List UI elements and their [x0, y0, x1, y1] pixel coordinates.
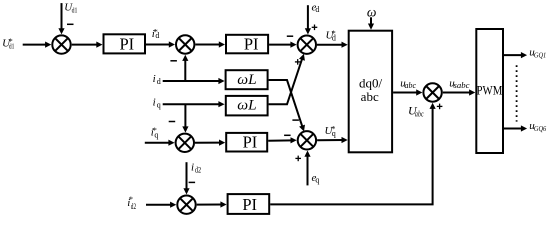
svg-text:PI: PI: [119, 35, 134, 54]
summing junction S5: [298, 131, 316, 149]
node usabc label: [449, 77, 470, 90]
svg-text:abc: abc: [405, 81, 417, 90]
wire S4 to PI controller PI3: [195, 140, 225, 146]
wire wL1 output cross-coupling to summer S5: [269, 80, 305, 132]
summing junction S4: [176, 134, 194, 152]
svg-text:q: q: [315, 176, 319, 185]
summing junction S3: [298, 36, 316, 54]
svg-text:d2: d2: [131, 202, 136, 211]
node i*d label: [152, 26, 160, 40]
svg-text:PI: PI: [244, 35, 259, 54]
node eq grid voltage label: [312, 172, 320, 185]
wire dq0/abc to summer S6 uabc: [393, 89, 422, 95]
sign plus at S3 top input: [312, 25, 318, 31]
svg-text:abc: abc: [361, 89, 379, 104]
wire PWM gate output uGQ1: [504, 52, 527, 58]
svg-text:d: d: [157, 77, 161, 86]
wire wL2 output cross-coupling to summer S3: [269, 54, 305, 105]
svg-text:PWM: PWM: [477, 84, 503, 98]
svg-text:i: i: [153, 96, 156, 108]
block PWM modulator: [476, 29, 503, 153]
svg-text:q: q: [154, 131, 158, 140]
node Ud1 feedback label: [64, 2, 77, 15]
wire i*q to summer S4: [145, 140, 175, 146]
wire PI2 to summer S3: [269, 42, 297, 48]
sign minus at S2 bottom input: [170, 60, 177, 62]
node id2 feedback label: [191, 162, 201, 175]
wire S7 to PI controller PI4: [197, 201, 227, 207]
summing junction S1: [52, 35, 70, 53]
dotted continuation line between gate outputs: [516, 65, 518, 121]
block wL1 omega-L gain: [226, 70, 268, 89]
node U*q output label: [325, 124, 336, 139]
sign minus at S5 diagonal input: [292, 119, 299, 121]
wire Ud1 drop into S1: [58, 3, 64, 34]
svg-text:d: d: [332, 33, 336, 42]
node i*q reference label: [151, 125, 159, 140]
wire id branch up into S2: [182, 55, 188, 81]
node i*d2 reference label: [127, 194, 136, 211]
sign plus at S3 bottom diagonal input: [295, 59, 301, 65]
svg-text:i: i: [153, 73, 156, 85]
svg-text:abc: abc: [415, 108, 424, 118]
wire iq branch down into S4: [182, 104, 188, 132]
block PI4 id2-loop PI: [228, 194, 270, 214]
svg-text:d2: d2: [195, 166, 201, 175]
svg-text:d1: d1: [9, 42, 15, 51]
svg-text:PI: PI: [242, 195, 257, 214]
node uabc label: [400, 77, 416, 90]
svg-text:GQ1: GQ1: [534, 51, 546, 60]
wire PI1 to summer S2: [146, 41, 175, 47]
wire PWM gate output uGQ6: [504, 125, 527, 131]
wire eq up into S5: [304, 151, 310, 186]
svg-text:PI: PI: [243, 133, 258, 152]
sign minus at S3 left input: [287, 35, 293, 37]
wire U*d1 to summer S1: [23, 42, 52, 48]
summing junction S7: [177, 196, 195, 214]
wire S1 to PI controller PI1: [72, 42, 103, 48]
wire S5 to dq0/abc block U*q input: [317, 137, 348, 143]
sign minus at S4 top input: [169, 121, 176, 123]
sign minus at S1 top input: [67, 23, 74, 25]
svg-text:GQ6: GQ6: [534, 124, 547, 133]
sign minus at S7 top input: [189, 181, 196, 183]
node U*d output label: [326, 28, 336, 42]
node omega label: [367, 4, 377, 19]
sign plus at S5 bottom input: [295, 156, 301, 162]
svg-text:i: i: [191, 162, 194, 174]
node iq label: [153, 96, 161, 109]
wire S6 to PWM usabc: [443, 89, 476, 95]
wire i*d2 to summer S7: [146, 202, 176, 208]
sign minus at S5 left input: [284, 134, 291, 136]
wire iq into wL2: [163, 101, 225, 107]
wire id into wL1: [163, 78, 225, 84]
summing junction S2: [176, 35, 194, 53]
node uGQ1 label: [529, 46, 546, 59]
sign plus at S6 bottom input: [437, 104, 443, 110]
node Uabc carrier label: [408, 104, 424, 119]
wire PI4 feedback up into S6: [270, 103, 436, 205]
svg-text:q: q: [332, 129, 336, 138]
node U*d1 reference input label: [2, 36, 14, 51]
summing junction S6: [423, 83, 441, 101]
wire ed drop into S3: [305, 5, 311, 34]
node ed grid voltage label: [312, 2, 320, 15]
block PI3 q-axis current PI: [226, 133, 267, 152]
wire id2 drop into S7: [183, 162, 189, 194]
node uGQ6 label: [529, 120, 546, 133]
svg-text:d1: d1: [72, 6, 78, 15]
svg-text:ω: ω: [367, 4, 377, 19]
block wL2 omega-L gain: [226, 96, 268, 116]
wire S2 to PI controller PI2: [195, 41, 225, 47]
svg-text:d: d: [155, 31, 159, 40]
svg-text:q: q: [157, 100, 161, 109]
block PI2 d-axis current PI: [226, 35, 268, 54]
svg-text:d: d: [315, 5, 319, 14]
svg-text:ωL: ωL: [237, 72, 256, 88]
wire PI3 to summer S5: [268, 137, 297, 143]
block dq0/abc transform: [349, 31, 392, 153]
block PI1 voltage-loop PI: [104, 34, 146, 53]
node id label: [153, 73, 161, 86]
wire omega into dq0/abc block: [368, 17, 374, 29]
svg-text:sabc: sabc: [454, 81, 470, 90]
wire S3 to dq0/abc block U*d input: [317, 42, 348, 48]
svg-text:ωL: ωL: [237, 97, 256, 113]
